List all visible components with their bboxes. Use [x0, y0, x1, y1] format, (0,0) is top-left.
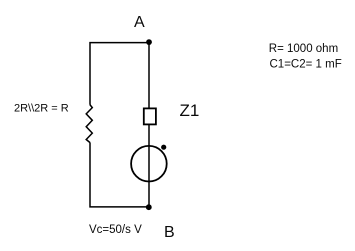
- node A junction dot: [146, 39, 152, 45]
- svg-text:A: A: [134, 14, 145, 31]
- wire top horizontal and left upper (node A to resistor): [90, 43, 149, 105]
- impedance box Z1: [144, 108, 156, 124]
- wire right vertical (node A through Z1 and source to node B): [148, 42, 150, 207]
- node B junction dot: [146, 204, 152, 210]
- svg-text:B: B: [164, 224, 175, 241]
- source circle: [131, 146, 167, 182]
- wire left lower and bottom horizontal (resistor to node B): [90, 142, 149, 207]
- svg-text:R= 1000 ohm: R= 1000 ohm: [269, 43, 338, 55]
- resistor 2R||2R = R zigzag: [86, 105, 92, 143]
- svg-text:C1=C2= 1 mF: C1=C2= 1 mF: [270, 59, 342, 71]
- source terminal dot: [161, 145, 166, 150]
- svg-text:Vc=50/s V: Vc=50/s V: [89, 224, 142, 236]
- svg-text:2R\\2R = R: 2R\\2R = R: [14, 103, 69, 115]
- svg-text:Z1: Z1: [180, 101, 200, 120]
